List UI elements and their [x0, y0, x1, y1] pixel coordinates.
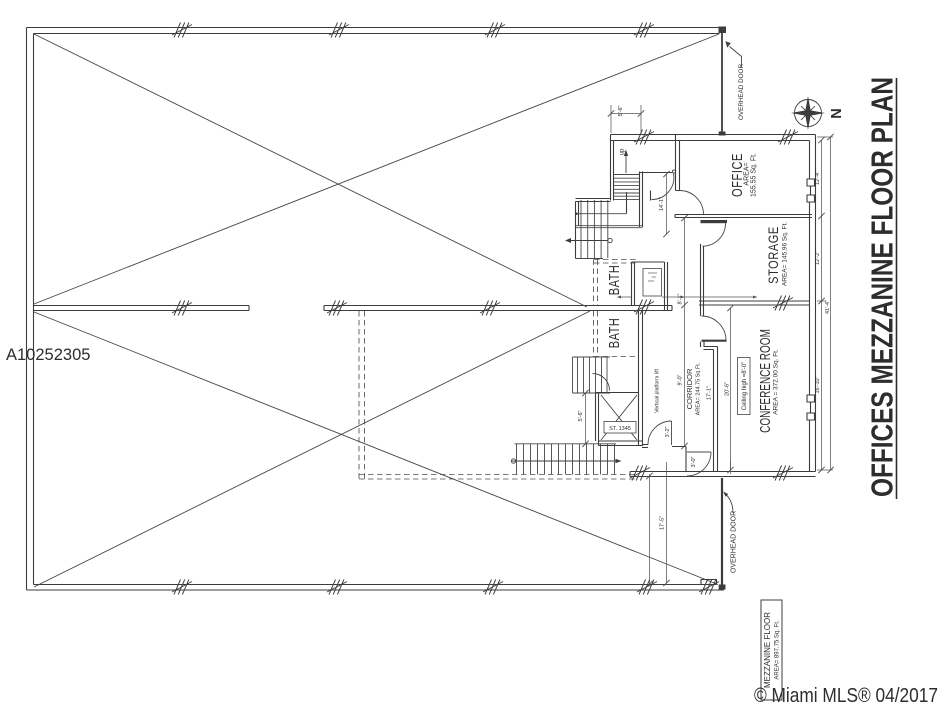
svg-text:MEZZANINE FLOOR: MEZZANINE FLOOR	[763, 612, 772, 688]
svg-text:14'-1": 14'-1"	[659, 197, 665, 211]
svg-text:AREA= 145.96 Sq. Ft.: AREA= 145.96 Sq. Ft.	[782, 222, 789, 286]
svg-text:8'-1": 8'-1"	[678, 293, 684, 304]
svg-text:AREA= 897.75 Sq. Ft.: AREA= 897.75 Sq. Ft.	[775, 620, 781, 680]
svg-text:17'-5": 17'-5"	[660, 516, 666, 530]
svg-text:41'-4": 41'-4"	[825, 300, 831, 314]
svg-text:3'-0": 3'-0"	[691, 456, 697, 467]
svg-text:CORRIDOR: CORRIDOR	[685, 368, 694, 409]
svg-text:AREA = 372.00 Sq. Ft.: AREA = 372.00 Sq. Ft.	[773, 349, 780, 415]
svg-text:17'-1": 17'-1"	[707, 386, 713, 400]
svg-text:ST. 1345: ST. 1345	[609, 426, 631, 432]
svg-text:5'-6": 5'-6"	[618, 105, 624, 116]
svg-text:Ceiling high =8'-0": Ceiling high =8'-0"	[742, 362, 748, 410]
svg-text:155.55 Sq. Ft.: 155.55 Sq. Ft.	[751, 153, 758, 197]
svg-text:N: N	[829, 108, 845, 118]
svg-text:5'-6": 5'-6"	[578, 410, 584, 421]
svg-text:BATH: BATH	[606, 318, 623, 349]
svg-text:12'-4": 12'-4"	[815, 171, 821, 185]
svg-text:16'-10": 16'-10"	[815, 376, 821, 393]
svg-text:Vertical platform lift: Vertical platform lift	[655, 369, 661, 413]
svg-text:AREA=: AREA=	[744, 162, 751, 185]
svg-text:© Miami MLS® 04/2017: © Miami MLS® 04/2017	[754, 684, 938, 707]
svg-text:OFFICES MEZZANINE FLOOR PLAN: OFFICES MEZZANINE FLOOR PLAN	[866, 77, 901, 497]
svg-text:STORAGE: STORAGE	[766, 226, 781, 284]
svg-text:CONFERENCE ROOM: CONFERENCE ROOM	[756, 329, 774, 433]
svg-text:OVERHEAD DOOR: OVERHEAD DOOR	[738, 64, 745, 120]
svg-text:BATH: BATH	[606, 265, 623, 296]
svg-text:OVERHEAD DOOR: OVERHEAD DOOR	[731, 511, 738, 573]
svg-text:12'-2": 12'-2"	[815, 251, 821, 265]
svg-text:up: up	[620, 148, 626, 155]
svg-text:20'-6": 20'-6"	[725, 382, 731, 396]
svg-text:A10252305: A10252305	[6, 346, 90, 364]
svg-text:AREA= 244.75 Sq.Ft.: AREA= 244.75 Sq.Ft.	[696, 362, 702, 415]
svg-text:3'-2": 3'-2"	[665, 426, 671, 437]
svg-text:9'-0": 9'-0"	[678, 374, 684, 385]
